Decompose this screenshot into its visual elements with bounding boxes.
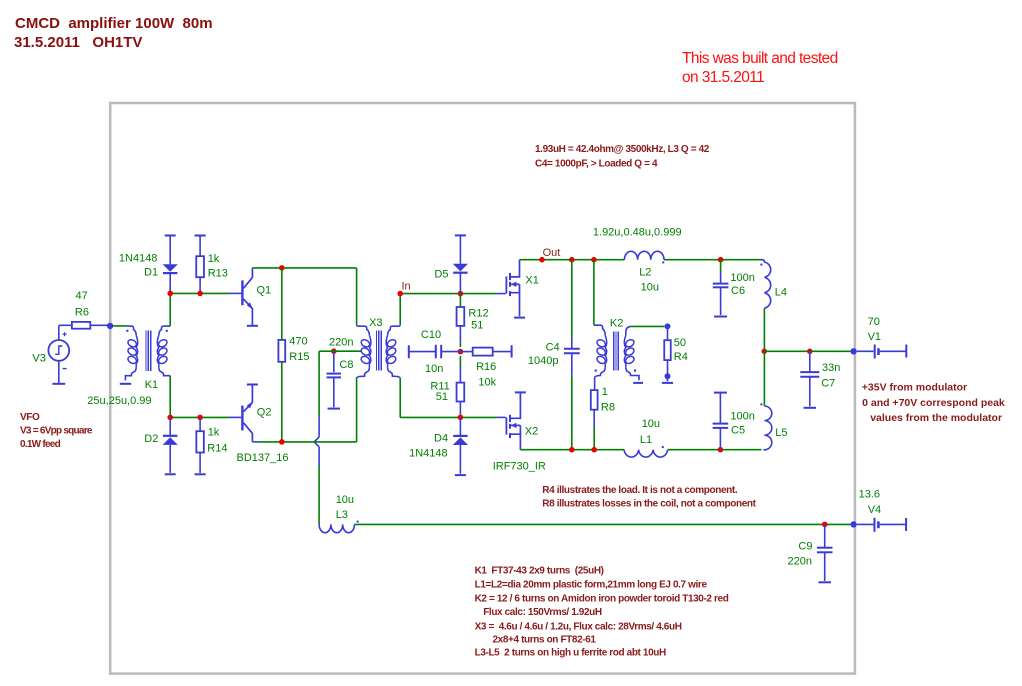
wire X3 left bottom stub: [356, 378, 358, 442]
svg-text:1N4148: 1N4148: [119, 253, 158, 265]
junction C5 bottom: [718, 447, 724, 453]
svg-text:10u: 10u: [642, 418, 660, 430]
wire X3 right top stub: [399, 294, 401, 325]
terminal cap C9: [818, 581, 831, 583]
junction K2 top: [591, 257, 597, 263]
svg-text:D1: D1: [144, 267, 158, 279]
inductor L2 tail dot: [662, 261, 664, 263]
svg-text:D5: D5: [434, 269, 448, 281]
wire R4 top: [667, 326, 669, 340]
wire D2 top: [169, 417, 171, 435]
junction D4 lower rail: [458, 415, 464, 421]
wire L2 to C6: [664, 259, 762, 261]
svg-text:D4: D4: [434, 433, 448, 445]
transformer K2 right winding: [624, 338, 635, 348]
resistor R4: [664, 340, 671, 360]
transformer K2 core: [614, 332, 619, 371]
wire R15 lower: [281, 362, 283, 442]
resistor R15: [278, 340, 285, 362]
wire X3 left top stub: [356, 268, 358, 325]
wire X1 drain to Out rail: [520, 259, 625, 261]
diode D4 1N4148: [453, 437, 468, 445]
svg-text:K2 = 12 / 6 turns on Amidon ir: K2 = 12 / 6 turns on Amidon iron powder …: [475, 594, 729, 605]
transistor Q1 emitter arrow: [247, 302, 253, 309]
wire X3 right bottom stub: [399, 378, 401, 417]
svg-text:100n: 100n: [730, 411, 754, 423]
wire R11 top: [459, 367, 461, 383]
svg-text:470: 470: [289, 336, 307, 348]
transformer K1 left stub top: [127, 326, 137, 335]
terminal dot R4 bottom: [665, 373, 671, 379]
mosfet X1 bulk stub: [511, 283, 520, 285]
wire R11 top green: [459, 356, 461, 367]
svg-text:1k: 1k: [208, 427, 220, 439]
terminal dot R4 top: [665, 323, 671, 329]
svg-text:100n: 100n: [730, 272, 754, 284]
svg-text:C6: C6: [731, 285, 745, 297]
wire C4 bottom blue: [571, 353, 573, 375]
svg-text:C4= 1000pF, > Loaded Q = 4: C4= 1000pF, > Loaded Q = 4: [535, 159, 658, 170]
svg-text:R15: R15: [289, 351, 309, 363]
diode D2 1N4148: [163, 437, 178, 445]
terminal cap C5 top: [714, 392, 727, 394]
svg-text:K2: K2: [610, 318, 623, 330]
terminal cap C7: [804, 407, 817, 409]
wire X1 gate lead: [497, 293, 506, 295]
transformer K1 core: [146, 331, 151, 371]
svg-text:Out: Out: [543, 247, 561, 259]
wire C10 right: [441, 351, 460, 353]
junction D5 In rail: [458, 291, 464, 297]
transformer K2 polarity dot right: [634, 370, 636, 372]
svg-text:In: In: [402, 281, 411, 293]
transformer K2 left stub top: [594, 325, 605, 335]
wire L4 to mid: [763, 308, 765, 351]
terminal cap Q1 emitter: [247, 325, 258, 327]
wire C4 top: [571, 260, 573, 337]
svg-text:25u,25u,0.99: 25u,25u,0.99: [87, 395, 151, 407]
svg-text:C8: C8: [339, 359, 353, 371]
svg-text:10u: 10u: [336, 494, 354, 506]
transformer K2 left winding: [596, 338, 607, 348]
transformer K2 right stub bottom: [626, 367, 639, 380]
mosfet X1 gate bar: [505, 276, 507, 293]
wire C8 top: [333, 351, 335, 372]
wire C4 top blue: [571, 337, 573, 348]
wire C7 to border: [810, 350, 851, 352]
wire V4 lead right: [880, 523, 906, 525]
svg-text:Q2: Q2: [257, 407, 272, 419]
svg-text:Flux calc: 150Vrms/ 1.92uH: Flux calc: 150Vrms/ 1.92uH: [483, 607, 602, 618]
node V4 plus: [850, 521, 856, 527]
wire K1 right bottom to Q2 base rail: [169, 376, 171, 418]
voltage source V3: [48, 340, 69, 361]
wire R12 bottom: [459, 326, 461, 343]
svg-text:31.5.2011 OH1TV: 31.5.2011 OH1TV: [14, 34, 142, 51]
svg-text:1k: 1k: [208, 253, 220, 265]
svg-text:V3: V3: [32, 353, 45, 365]
svg-text:70: 70: [868, 316, 880, 328]
wire R15 upper: [281, 268, 283, 340]
svg-text:47: 47: [76, 290, 88, 302]
svg-text:220n: 220n: [329, 337, 353, 349]
wire D2 bottom: [169, 445, 171, 473]
wire jog to L3 blue: [318, 447, 320, 466]
svg-text:L3-L5 2 turns on high u ferri: L3-L5 2 turns on high u ferrite rod abt …: [475, 648, 666, 659]
wire X2 gate lead: [497, 416, 506, 418]
wire jog crossing Q2 rail: [314, 437, 319, 447]
junction C4 bottom: [569, 447, 575, 453]
transistor Q1 collector: [244, 268, 253, 288]
wire V4 lead left: [857, 523, 874, 525]
svg-text:R4 illustrates the load. It is: R4 illustrates the load. It is not a com…: [542, 485, 738, 496]
terminal cap R14: [195, 473, 206, 475]
wire C4 bottom: [571, 375, 573, 449]
svg-text:1.93uH = 42.4ohm@ 3500kHz, L3: 1.93uH = 42.4ohm@ 3500kHz, L3 Q = 42: [535, 144, 710, 155]
svg-text:CMCD amplifier 100W 80m: CMCD amplifier 100W 80m: [15, 15, 213, 32]
mosfet X1 source stub: [511, 293, 520, 317]
wire tap down blue seg: [318, 417, 320, 437]
capacitor C7: [800, 371, 819, 373]
junction R8 bottom: [591, 447, 597, 453]
svg-text:C7: C7: [821, 378, 835, 390]
capacitor C5: [713, 423, 729, 425]
transformer K1 polarity dot left: [126, 330, 128, 332]
wire R12 bottom green: [459, 343, 461, 347]
inductor L2: [624, 251, 664, 259]
inductor L3: [319, 524, 354, 532]
svg-text:C5: C5: [731, 425, 745, 437]
svg-text:L3: L3: [336, 509, 348, 521]
transistor Q1 base bar: [241, 280, 243, 305]
junction C8 tap: [331, 348, 337, 354]
svg-text:R8: R8: [601, 402, 615, 414]
svg-text:L1: L1: [640, 434, 652, 446]
battery V4 long plate: [874, 518, 876, 532]
wire mid to C7: [764, 350, 810, 352]
wire K2 left bottom to R8: [594, 378, 596, 390]
wire R14 top: [199, 417, 201, 431]
wire down to L3: [318, 466, 320, 524]
terminal cap D4: [455, 474, 466, 476]
terminal bar C10 left: [408, 345, 410, 358]
junction C6 top: [718, 257, 724, 263]
svg-text:VFO: VFO: [20, 412, 40, 423]
wire C8 bottom: [333, 377, 335, 407]
wire tap down to rail: [318, 351, 320, 417]
wire R12 top: [459, 294, 461, 307]
wire Q2 base lead: [229, 416, 242, 418]
svg-text:1N4148: 1N4148: [409, 448, 448, 460]
wire L1 to C5: [668, 449, 762, 451]
wire C5 top: [719, 393, 721, 423]
svg-text:R12: R12: [468, 308, 488, 320]
wire Q2 collector rail: [259, 441, 357, 443]
transformer X3 right winding: [386, 338, 397, 348]
terminal cap X1 source: [514, 317, 525, 319]
mosfet X2 gate bar: [505, 417, 507, 434]
inductor L1 tail dot: [662, 446, 664, 448]
diode D1 1N4148: [163, 264, 178, 272]
wire mid to L5: [763, 351, 765, 406]
svg-text:V4: V4: [868, 504, 881, 516]
battery V1 long plate: [874, 345, 876, 359]
inductor L4 polarity dot: [760, 264, 762, 266]
transformer K2 left stub bottom: [595, 367, 606, 378]
transformer K1 right stub top: [159, 326, 170, 335]
wire Q1 base rail: [170, 292, 228, 294]
junction C9 top: [822, 522, 828, 528]
svg-text:X1: X1: [525, 275, 538, 287]
wire D4 top: [459, 417, 461, 435]
svg-text:L4: L4: [775, 287, 787, 299]
transistor Q2 emitter arrow: [247, 402, 253, 409]
svg-text:L1=L2=dia 20mm plastic form,21: L1=L2=dia 20mm plastic form,21mm long EJ…: [475, 580, 708, 591]
node V1 plus: [850, 348, 856, 354]
svg-text:51: 51: [471, 320, 483, 332]
wire D5 top: [459, 235, 461, 263]
mosfet X2 source stub: [511, 434, 520, 450]
terminal cap R13: [195, 235, 206, 237]
resistor R11: [457, 383, 465, 402]
wire V3 bottom: [58, 361, 60, 383]
svg-text:Q1: Q1: [257, 285, 272, 297]
mosfet X2 bulk arrow: [511, 423, 517, 428]
svg-text:R13: R13: [208, 268, 228, 280]
wire D1 bottom: [169, 274, 171, 294]
mosfet X2 bulk stub: [511, 424, 520, 426]
wire C10 left: [409, 351, 435, 353]
wire C9 bottom: [824, 552, 826, 581]
svg-text:R14: R14: [207, 443, 227, 455]
terminal bar V4: [905, 518, 907, 531]
svg-text:R16: R16: [476, 361, 496, 373]
mosfet X1 channel: [509, 273, 511, 280]
transformer K1 right winding: [157, 338, 168, 348]
svg-text:on 31.5.2011: on 31.5.2011: [682, 69, 764, 86]
transformer K1 left winding: [127, 338, 138, 348]
wire L3 rail: [355, 523, 851, 525]
transformer X3 right stub top: [388, 325, 401, 336]
svg-text:K1: K1: [145, 379, 158, 391]
capacitor C10: [435, 345, 437, 359]
junction R13 base rail: [197, 291, 203, 297]
diode D5 1N4148: [453, 264, 468, 272]
wire C6 bottom: [720, 287, 722, 315]
wire R8 bottom: [593, 427, 595, 450]
terminal cap D1: [165, 235, 176, 237]
capacitor C9: [817, 547, 833, 549]
svg-text:1.92u,0.48u,0.999: 1.92u,0.48u,0.999: [593, 227, 682, 239]
svg-text:This was built and tested: This was built and tested: [682, 50, 838, 67]
junction C10 R16: [458, 349, 464, 355]
inductor L1: [624, 450, 668, 457]
transistor Q2 collector: [244, 423, 253, 442]
wire V3 top to R6: [58, 325, 60, 340]
ground K2 right: [633, 382, 643, 384]
svg-text:L2: L2: [639, 267, 651, 279]
wire R13 bottom: [199, 277, 201, 293]
svg-text:R6: R6: [75, 307, 89, 319]
svg-text:50: 50: [674, 337, 686, 349]
svg-text:33n: 33n: [822, 362, 840, 374]
wire R6 to node: [90, 324, 110, 326]
wire X2 source rail: [520, 449, 624, 451]
resistor R13: [196, 256, 204, 277]
node junction at border (V3/K1): [107, 323, 113, 329]
svg-text:220n: 220n: [788, 556, 812, 568]
transformer K1 right stub bottom: [159, 367, 170, 376]
terminal cap D5: [455, 234, 466, 236]
wire tap to X3 center: [334, 350, 361, 352]
inductor L5: [763, 406, 771, 450]
capacitor C8: [327, 373, 341, 375]
wire Q2 base rail: [170, 416, 228, 418]
resistor R16: [473, 348, 493, 356]
inductor L5 polarity dot: [760, 403, 762, 405]
wire C6 top: [720, 260, 722, 272]
wire K2 right top to R4: [632, 325, 665, 327]
transformer K1 polarity dot right: [166, 330, 168, 332]
junction R15 bottom: [279, 439, 285, 445]
wire V3 top corner: [59, 324, 72, 326]
capacitor C4: [564, 348, 580, 350]
svg-text:0.1W feed: 0.1W feed: [20, 439, 61, 450]
svg-text:1040p: 1040p: [528, 355, 559, 367]
wire K1 right top to Q1 base rail: [169, 293, 171, 326]
wire C6 top blue: [720, 272, 722, 283]
resistor R8: [591, 390, 598, 410]
transformer X3 left winding: [360, 338, 371, 348]
mosfet X2 channel: [509, 415, 511, 422]
battery V4 short plate: [877, 521, 880, 528]
svg-text:1: 1: [602, 386, 608, 398]
svg-text:C4: C4: [546, 342, 560, 354]
svg-text:BD137_16: BD137_16: [237, 452, 289, 464]
terminal cap C6: [714, 316, 727, 318]
wire D1 top: [169, 236, 171, 265]
svg-text:X2: X2: [525, 426, 538, 438]
svg-text:10u: 10u: [641, 282, 659, 294]
mosfet X1 drain stub: [511, 260, 520, 277]
junction D1 base rail: [167, 291, 173, 297]
junction R15 top: [279, 265, 285, 271]
capacitor C6: [713, 283, 729, 285]
transistor Q2 base bar: [241, 406, 243, 431]
battery V1 short plate: [877, 348, 880, 355]
transformer X3 left stub top: [357, 325, 370, 336]
wire R13 top: [199, 236, 201, 257]
node Out: [539, 257, 545, 263]
junction C7 top: [807, 349, 813, 355]
wire R8 bottom blue: [593, 410, 595, 427]
wire K2 left top: [593, 260, 595, 326]
transformer X3 core: [377, 331, 382, 371]
wire D5 bottom: [459, 273, 461, 293]
svg-text:13.6: 13.6: [859, 489, 880, 501]
svg-text:+35V from modulator: +35V from modulator: [862, 382, 967, 394]
resistor R6: [72, 322, 90, 329]
svg-text:IRF730_IR: IRF730_IR: [493, 461, 546, 473]
transformer K2 right stub top: [626, 326, 632, 335]
transformer K1 left stub bottom: [125, 367, 136, 380]
inductor L3 tail dot: [357, 521, 359, 523]
svg-text:R4: R4: [674, 351, 688, 363]
svg-text:X3 = 4.6u / 4.6u / 1.2u, Flux: X3 = 4.6u / 4.6u / 1.2u, Flux calc: 28Vr…: [475, 622, 682, 633]
wire C7 bottom: [809, 377, 811, 407]
svg-text:C9: C9: [798, 541, 812, 553]
mosfet X2 drain stub: [511, 392, 520, 418]
wire tap left: [319, 350, 334, 352]
svg-text:L5: L5: [775, 427, 787, 439]
resistor R12: [457, 307, 465, 326]
svg-text:10k: 10k: [478, 376, 496, 388]
wire C7 top: [809, 351, 811, 371]
svg-text:K1 FT37-43 2x9 turns (25uH): K1 FT37-43 2x9 turns (25uH): [475, 566, 604, 577]
wire In rail: [400, 293, 497, 295]
terminal cap C8: [328, 408, 341, 410]
junction L4 L5 mid: [762, 349, 768, 355]
schematic frame border: [110, 103, 855, 674]
wire Q1 base lead: [229, 292, 242, 294]
svg-text:V3 = 6Vpp square: V3 = 6Vpp square: [20, 426, 93, 437]
terminal bar R16 right: [511, 345, 513, 357]
transformer K2 polarity dot left: [595, 370, 597, 372]
svg-text:2x8+4 turns on FT82-61: 2x8+4 turns on FT82-61: [493, 635, 597, 646]
svg-text:values from the modulator: values from the modulator: [870, 412, 1002, 424]
svg-text:10n: 10n: [425, 363, 443, 375]
wire C5 bottom: [719, 428, 721, 450]
terminal cap X2 drain: [515, 391, 526, 393]
wire R11 bottom: [459, 402, 461, 418]
ground V3: [52, 383, 65, 385]
svg-text:R8 illustrates losses in the c: R8 illustrates losses in the coil, not a…: [542, 499, 756, 510]
svg-text:X3: X3: [369, 317, 382, 329]
wire lower In rail: [400, 416, 497, 418]
wire R4 bottom: [667, 360, 669, 374]
terminal bar V1: [905, 345, 907, 358]
resistor R14: [196, 431, 204, 452]
transistor Q2 emitter: [244, 385, 253, 412]
terminal cap D2: [165, 473, 176, 475]
wire Q1 collector rail: [252, 267, 356, 269]
junction R14 base rail: [197, 415, 203, 421]
svg-text:C10: C10: [421, 329, 441, 341]
ground K1: [120, 383, 131, 385]
svg-text:51: 51: [436, 391, 448, 403]
wire R14 bottom: [199, 453, 201, 473]
wire D4 bottom: [459, 445, 461, 474]
wire Q2 collector rail blue: [252, 441, 259, 443]
junction C4 top: [569, 257, 575, 263]
wire V1 lead left: [857, 350, 874, 352]
ground R4: [662, 382, 673, 384]
svg-text:V1: V1: [868, 331, 881, 343]
wire R16 right: [493, 351, 511, 353]
transformer X3 left stub bottom: [357, 367, 370, 378]
terminal cap Q2 emitter: [247, 384, 258, 386]
inductor L4: [762, 260, 771, 309]
svg-text:0 and +70V correspond peak: 0 and +70V correspond peak: [862, 397, 1005, 409]
wire R4 ground stub: [667, 379, 669, 382]
mosfet X1 bulk arrow: [511, 282, 517, 287]
junction D2 base rail: [167, 415, 173, 421]
node In: [397, 291, 403, 297]
svg-text:D2: D2: [144, 433, 158, 445]
wire C9 top: [824, 524, 826, 547]
wire node to K1: [113, 325, 127, 327]
wire V1 lead right: [880, 350, 907, 352]
